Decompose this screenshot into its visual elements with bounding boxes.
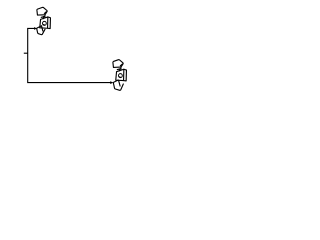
clip bracket 1 flange fold line xyxy=(42,26,43,31)
arrowhead to bracket 1 xyxy=(34,27,37,30)
leader tick xyxy=(24,52,28,54)
clip bracket 2 flange fold line xyxy=(119,81,120,86)
clip bracket 2 bottom flange xyxy=(113,80,123,90)
clip bracket 1 bottom flange xyxy=(37,26,45,35)
arrowhead to bracket 2 xyxy=(110,81,113,84)
clip bracket 2 (bottom right) xyxy=(113,60,127,81)
leader line elbow (top arrow to vertical) xyxy=(28,28,111,82)
clip bracket 1 (top) xyxy=(37,7,51,28)
